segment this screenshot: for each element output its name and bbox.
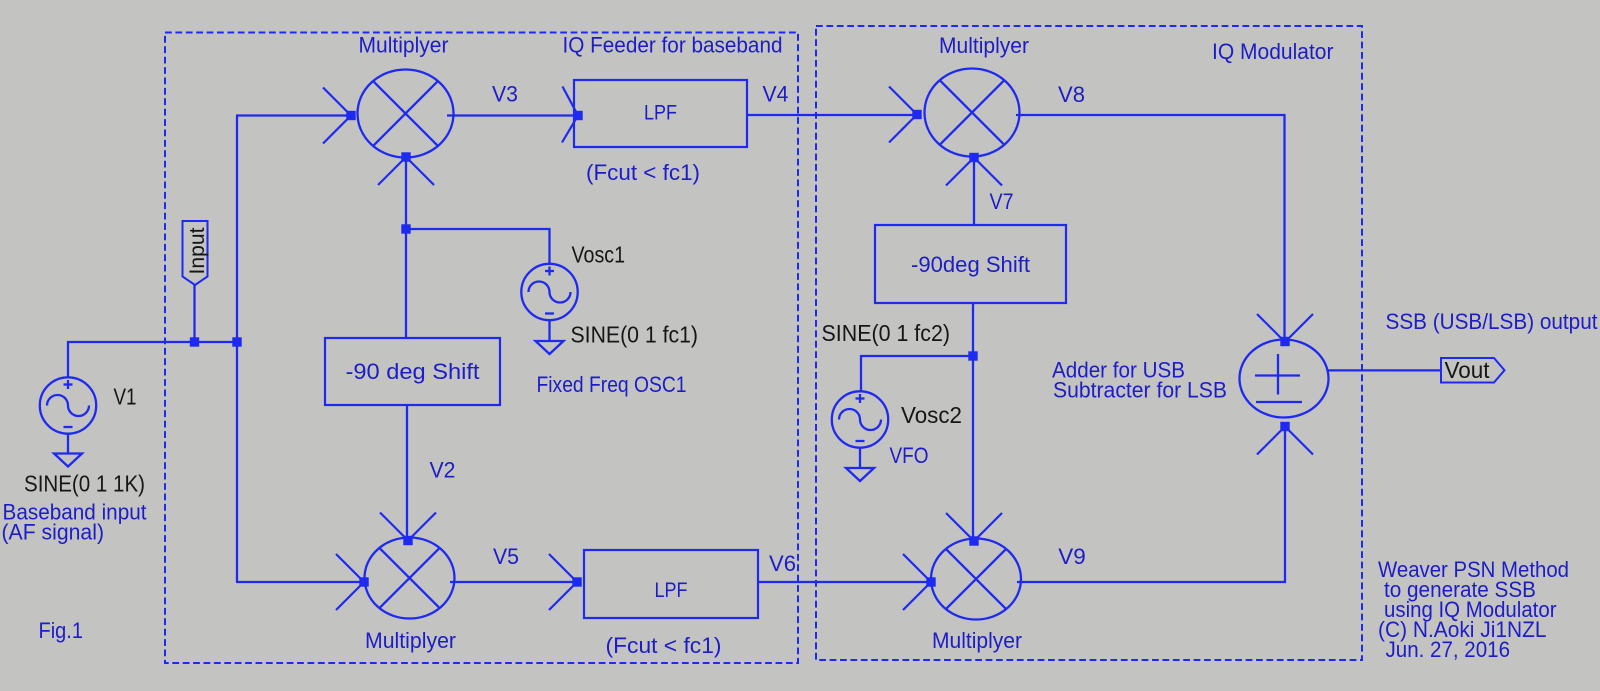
net flag Vout [1441,358,1505,383]
ground (V1) [54,454,82,467]
V1 ground stem [67,434,69,454]
wire junction to Vosc1 [406,229,550,264]
node LPF2 input [572,577,581,586]
svg-text:V9: V9 [1058,544,1086,569]
node U4 top input [969,536,978,545]
LPF1 box [574,80,747,147]
svg-text:V3: V3 [492,82,518,107]
LPF2 box [584,550,758,618]
svg-text:Vosc1: Vosc1 [572,242,626,268]
wire net V6: LPF2 to U4 [758,581,931,583]
wire net V7: U3 bottom to -90deg Shift [973,158,975,226]
node junction U1-bottom/Vosc1/shift [401,224,410,233]
multiplier U4 [931,539,1021,620]
-90 deg Shift box (baseband) [325,338,500,405]
multiplier U1 [358,70,454,158]
svg-text:V2: V2 [430,458,456,483]
node U1 left input [346,111,355,120]
U4 input arrow left [903,554,931,582]
U3 input arrow bottom [946,158,974,186]
dashed box: IQ Modulator [816,26,1362,660]
wire -90deg Shift to U4 top [972,302,974,541]
svg-text:(Fcut < fc1): (Fcut < fc1) [606,633,722,658]
svg-text:Fig.1: Fig.1 [39,618,84,643]
svg-text:LPF: LPF [655,579,688,602]
wire bus to multiplier U1 input [236,114,351,116]
wire Input flag stem [193,284,195,342]
wire net V5: U2 out to LPF2 [450,581,577,583]
svg-text:V7: V7 [990,189,1014,214]
wire net V3: U1 out to LPF1 [447,114,578,116]
node U2 left input [359,577,368,586]
svg-text:VFO: VFO [890,443,929,468]
U1 input arrow left [323,88,351,116]
adder U5 body [1240,340,1329,418]
-90deg Shift box (modulator) [875,225,1066,303]
net flag Input [183,221,208,285]
node U3 bottom input [969,153,978,162]
wire input bus vertical [236,116,238,583]
svg-text:SINE(0 1 fc2): SINE(0 1 fc2) [822,320,951,346]
node U1 bottom input [401,152,410,161]
ground (Vosc2) [846,468,874,481]
svg-text:-90deg Shift: -90deg Shift [911,252,1030,277]
voltage source V1 [40,377,96,433]
U4 input arrow top [946,513,974,541]
svg-text:Jun. 27, 2016: Jun. 27, 2016 [1386,637,1511,662]
LPF1 input arrow [563,87,579,116]
wire net V9: U4 out to adder [1017,427,1285,582]
svg-text:Multiplyer: Multiplyer [359,33,449,58]
svg-text:IQ Modulator: IQ Modulator [1212,39,1334,64]
Vosc2 ground stem [859,448,861,468]
wire Vout output [1328,369,1442,371]
node U5 bottom input [1280,422,1289,431]
svg-text:LPF: LPF [644,102,677,125]
node junction Input/V1 [190,337,199,346]
svg-text:SINE(0 1 1K): SINE(0 1 1K) [24,471,145,497]
wire net V4: LPF1 to U3 [747,114,917,116]
wire U1 bottom to junction [405,157,407,231]
svg-text:-90 deg Shift: -90 deg Shift [346,359,480,384]
svg-text:V4: V4 [763,82,789,107]
wire V1 top to junction row [68,342,237,378]
voltage source Vosc1 [521,264,577,320]
svg-text:Multiplyer: Multiplyer [939,33,1029,58]
svg-text:IQ Feeder for baseband: IQ Feeder for baseband [563,33,783,58]
U1 input arrow bottom [378,157,406,185]
wire bus to multiplier U2 input [236,581,364,583]
U5 input arrow top [1257,314,1285,342]
wire net V2: shift box to U2 [406,404,408,541]
node junction shift2/Vosc2 [968,351,977,360]
U2 input arrow top [380,513,408,541]
svg-text:(AF signal): (AF signal) [2,520,105,545]
svg-text:SSB (USB/LSB) output: SSB (USB/LSB) output [1386,309,1598,334]
node U3 left input [912,110,921,119]
node U4 left input [926,577,935,586]
wire junction to -90 deg Shift box [405,229,407,338]
U2 input arrow left [336,554,364,582]
svg-text:Fixed Freq OSC1: Fixed Freq OSC1 [537,372,687,397]
multiplier U3 [925,69,1020,157]
dashed box: IQ Feeder for baseband [165,33,798,664]
node U2 top input [403,536,412,545]
svg-text:Multiplyer: Multiplyer [365,628,456,653]
svg-text:V5: V5 [493,544,519,569]
wire junction to Vosc2 [861,356,973,392]
node junction bus [232,337,241,346]
ground (Vosc1) [536,341,564,354]
LPF2 input arrow [549,554,577,582]
svg-text:Input: Input [186,227,209,274]
svg-text:V8: V8 [1058,82,1085,107]
voltage source Vosc2 [832,391,888,447]
Vosc1 ground stem [548,320,550,340]
U3 input arrow left [889,87,917,115]
node U5 top input [1280,337,1289,346]
multiplier U2 [365,538,455,619]
U5 input arrow bottom [1257,427,1285,455]
svg-text:SINE(0 1 fc1): SINE(0 1 fc1) [571,322,699,348]
svg-text:Vosc2: Vosc2 [901,402,962,428]
svg-text:Vout: Vout [1445,357,1491,383]
svg-text:V6: V6 [769,551,796,576]
svg-text:Subtracter for LSB: Subtracter for LSB [1053,378,1227,403]
wire net V8: U3 out to adder [1016,115,1285,342]
svg-text:Multiplyer: Multiplyer [932,628,1022,653]
svg-text:(Fcut < fc1): (Fcut < fc1) [586,160,700,185]
node LPF1 input [573,111,582,120]
svg-text:V1: V1 [114,384,137,410]
